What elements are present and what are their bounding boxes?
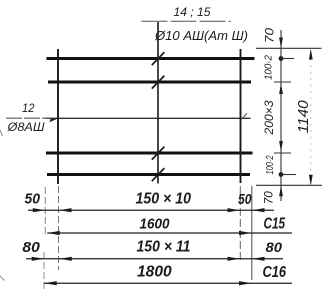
shelf line of top label (142, 20, 232, 22)
svg-text:1600: 1600 (140, 216, 171, 233)
svg-text:150 × 10: 150 × 10 (136, 190, 192, 207)
svg-text:12: 12 (22, 101, 35, 115)
arrow down to top edge (70) (279, 38, 283, 49)
longitudinal bar 3 (46, 152, 253, 155)
svg-text:150 × 11: 150 × 11 (137, 239, 191, 256)
row1 arrow right at x240.5 (228, 208, 241, 212)
extension line x58.5 (left cross bar) (58, 186, 60, 270)
svg-text:Ø8АШ: Ø8АШ (6, 120, 45, 134)
stray scan mark left edge (0, 130, 3, 136)
cross bar right (240, 49, 242, 183)
longitudinal bar 1 (top) (47, 57, 255, 60)
arrow down to bar3 (200x3 segment) (279, 141, 283, 152)
chain tick line at bar2 (274, 81, 291, 83)
svg-text:200×3: 200×3 (262, 100, 276, 135)
bottom edge extension line (256, 184, 322, 186)
row3 arrow left at x58.5 (59, 257, 72, 261)
row3 arrow right at x44 (32, 257, 45, 261)
extension line x253 (mesh right end) (251, 186, 253, 280)
svg-text:С16: С16 (263, 264, 287, 281)
longitudinal bar 4 (bottom) (47, 173, 250, 176)
dim row1 line (50 | 150x10 | 50) (28, 209, 274, 211)
svg-text:80: 80 (266, 239, 283, 255)
svg-text:50: 50 (238, 192, 252, 208)
svg-text:Ø10 АШ(Ат Ш): Ø10 АШ(Ат Ш) (154, 28, 248, 43)
svg-text:100·2: 100·2 (263, 55, 274, 80)
1140 dimension line (310, 52, 312, 181)
svg-text:1140: 1140 (296, 100, 312, 133)
chain dot at bar4 (279, 172, 284, 177)
row3 arrow right at x240.5 (228, 257, 241, 261)
row1 arrow right at x46 (33, 208, 46, 212)
row2 arrow right at x253 (239, 231, 252, 235)
right chain dimension line (280, 30, 282, 201)
row4 arrow right at x253 (239, 281, 252, 285)
extension line x240.5 (right cross bar) (239, 186, 241, 263)
arrow up to bar2 (200x3 segment) (279, 84, 283, 95)
chain dot at bar1 (279, 56, 284, 61)
top edge extension line (256, 47, 322, 49)
stray scan mark bottom-left corner (0, 276, 5, 281)
dim row2 line (1600) (47, 232, 292, 234)
dim row4 line (1800) (44, 282, 292, 284)
1140 arrow down (309, 175, 313, 186)
svg-text:80: 80 (22, 239, 40, 256)
dim row3 line (80 | 150x11 | 80) (26, 258, 283, 260)
row1 arrow left at x58.5 (59, 208, 72, 212)
svg-text:70: 70 (264, 191, 276, 205)
weld tick at center bar / bar4 (152, 168, 165, 181)
extension line x46 (mesh end C15 left) (44, 187, 46, 236)
shelf line of left label (6, 117, 54, 119)
svg-text:50: 50 (25, 190, 41, 207)
weld tick at center bar / bar3 (152, 147, 165, 160)
svg-text:14 ; 15: 14 ; 15 (174, 7, 212, 19)
row2 arrow left at x46 (47, 231, 60, 235)
chain tick line at bar3 (274, 152, 291, 154)
svg-text:100·2: 100·2 (265, 155, 276, 174)
row4 arrow left at x44 (44, 281, 57, 285)
weld tick at center bar / bar2 (152, 76, 165, 89)
row1 arrow left at x253 (252, 208, 265, 212)
weld tick at center bar / bar1 (152, 52, 165, 65)
svg-text:70: 70 (264, 27, 276, 43)
arrow up to bottom edge (70) (279, 186, 283, 197)
middle thin line of mesh (46, 117, 251, 119)
longitudinal bar 2 (48, 81, 251, 84)
cross bar left (57, 49, 59, 184)
svg-text:С15: С15 (264, 216, 286, 233)
extension line x44 (mesh end C16 left) (43, 252, 45, 289)
1140 arrow up (309, 49, 313, 60)
cross bar center (with leader up to label shelf) (157, 22, 159, 184)
small tick at right bar / middle line (241, 114, 247, 120)
row3 arrow left at x253 (252, 257, 265, 261)
leader arrow to left bar (50, 118, 59, 122)
svg-text:1800: 1800 (137, 264, 172, 281)
